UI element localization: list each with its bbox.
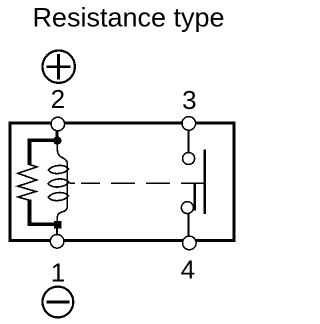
resistor zigzag xyxy=(18,165,37,201)
junction dot (node of terminal 2, resistor, coil) xyxy=(53,136,61,144)
mechanical link (dashed actuating line) xyxy=(70,182,204,184)
coil top lead xyxy=(57,145,67,164)
svg-text:2: 2 xyxy=(51,84,65,114)
wire: terminal 2 to junction xyxy=(55,131,58,139)
wire: thick resistor lead, top-left xyxy=(30,140,58,165)
upper contact circle xyxy=(183,153,195,165)
terminal 4 circle xyxy=(183,236,197,250)
contact blade (long bar) xyxy=(203,149,205,214)
svg-text:4: 4 xyxy=(181,255,195,285)
terminal 1 circle xyxy=(50,235,64,249)
coil loop 2 xyxy=(48,179,69,187)
relay case outline xyxy=(10,123,234,241)
wire: thick resistor lead, bottom-left xyxy=(30,199,57,224)
svg-text:Resistance type: Resistance type xyxy=(32,2,224,32)
wire: terminal 3 to upper contact xyxy=(188,131,190,153)
terminal 3 circle xyxy=(182,117,196,131)
wire: junction square to terminal 1 xyxy=(56,229,58,236)
terminal 2 circle xyxy=(51,117,65,131)
svg-text:3: 3 xyxy=(182,85,196,115)
junction square (node of terminal 1, resistor, coil) xyxy=(54,221,61,229)
coil right rail xyxy=(66,162,68,206)
svg-text:1: 1 xyxy=(51,258,65,288)
coil bottom lead xyxy=(57,206,67,221)
battery positive symbol (+) xyxy=(43,50,75,82)
coil loop 1 xyxy=(48,165,68,173)
battery negative symbol (-) xyxy=(43,287,74,318)
coil loop 3 xyxy=(48,193,68,201)
lower contact circle xyxy=(181,202,193,214)
wire: lower contact to terminal 4 xyxy=(188,214,190,236)
armature (short bar) xyxy=(194,184,196,210)
